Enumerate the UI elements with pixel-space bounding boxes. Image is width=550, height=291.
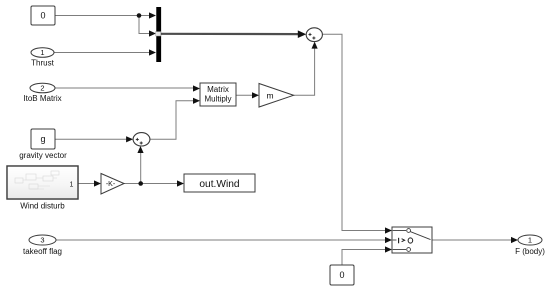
svg-text:m: m: [266, 90, 273, 100]
svg-text:-K-: -K-: [106, 181, 116, 188]
svg-text:0: 0: [40, 11, 45, 21]
svg-text:Thrust: Thrust: [31, 59, 54, 68]
svg-text:2: 2: [40, 84, 44, 93]
svg-text:F (body): F (body): [515, 247, 545, 256]
svg-text:g: g: [40, 134, 45, 144]
svg-text:Multiply: Multiply: [204, 95, 231, 104]
svg-text:1: 1: [40, 48, 44, 57]
svg-text:out.Wind: out.Wind: [199, 179, 240, 190]
svg-text:takeoff flag: takeoff flag: [23, 247, 62, 256]
svg-text:3: 3: [40, 236, 44, 245]
svg-text:1: 1: [528, 236, 532, 245]
svg-text:1: 1: [70, 182, 74, 189]
svg-text:Wind disturb: Wind disturb: [20, 202, 65, 211]
svg-text:0: 0: [339, 270, 344, 280]
svg-text:gravity vector: gravity vector: [19, 151, 67, 160]
svg-text:ItoB Matrix: ItoB Matrix: [23, 94, 61, 103]
svg-text:Matrix: Matrix: [207, 85, 229, 94]
